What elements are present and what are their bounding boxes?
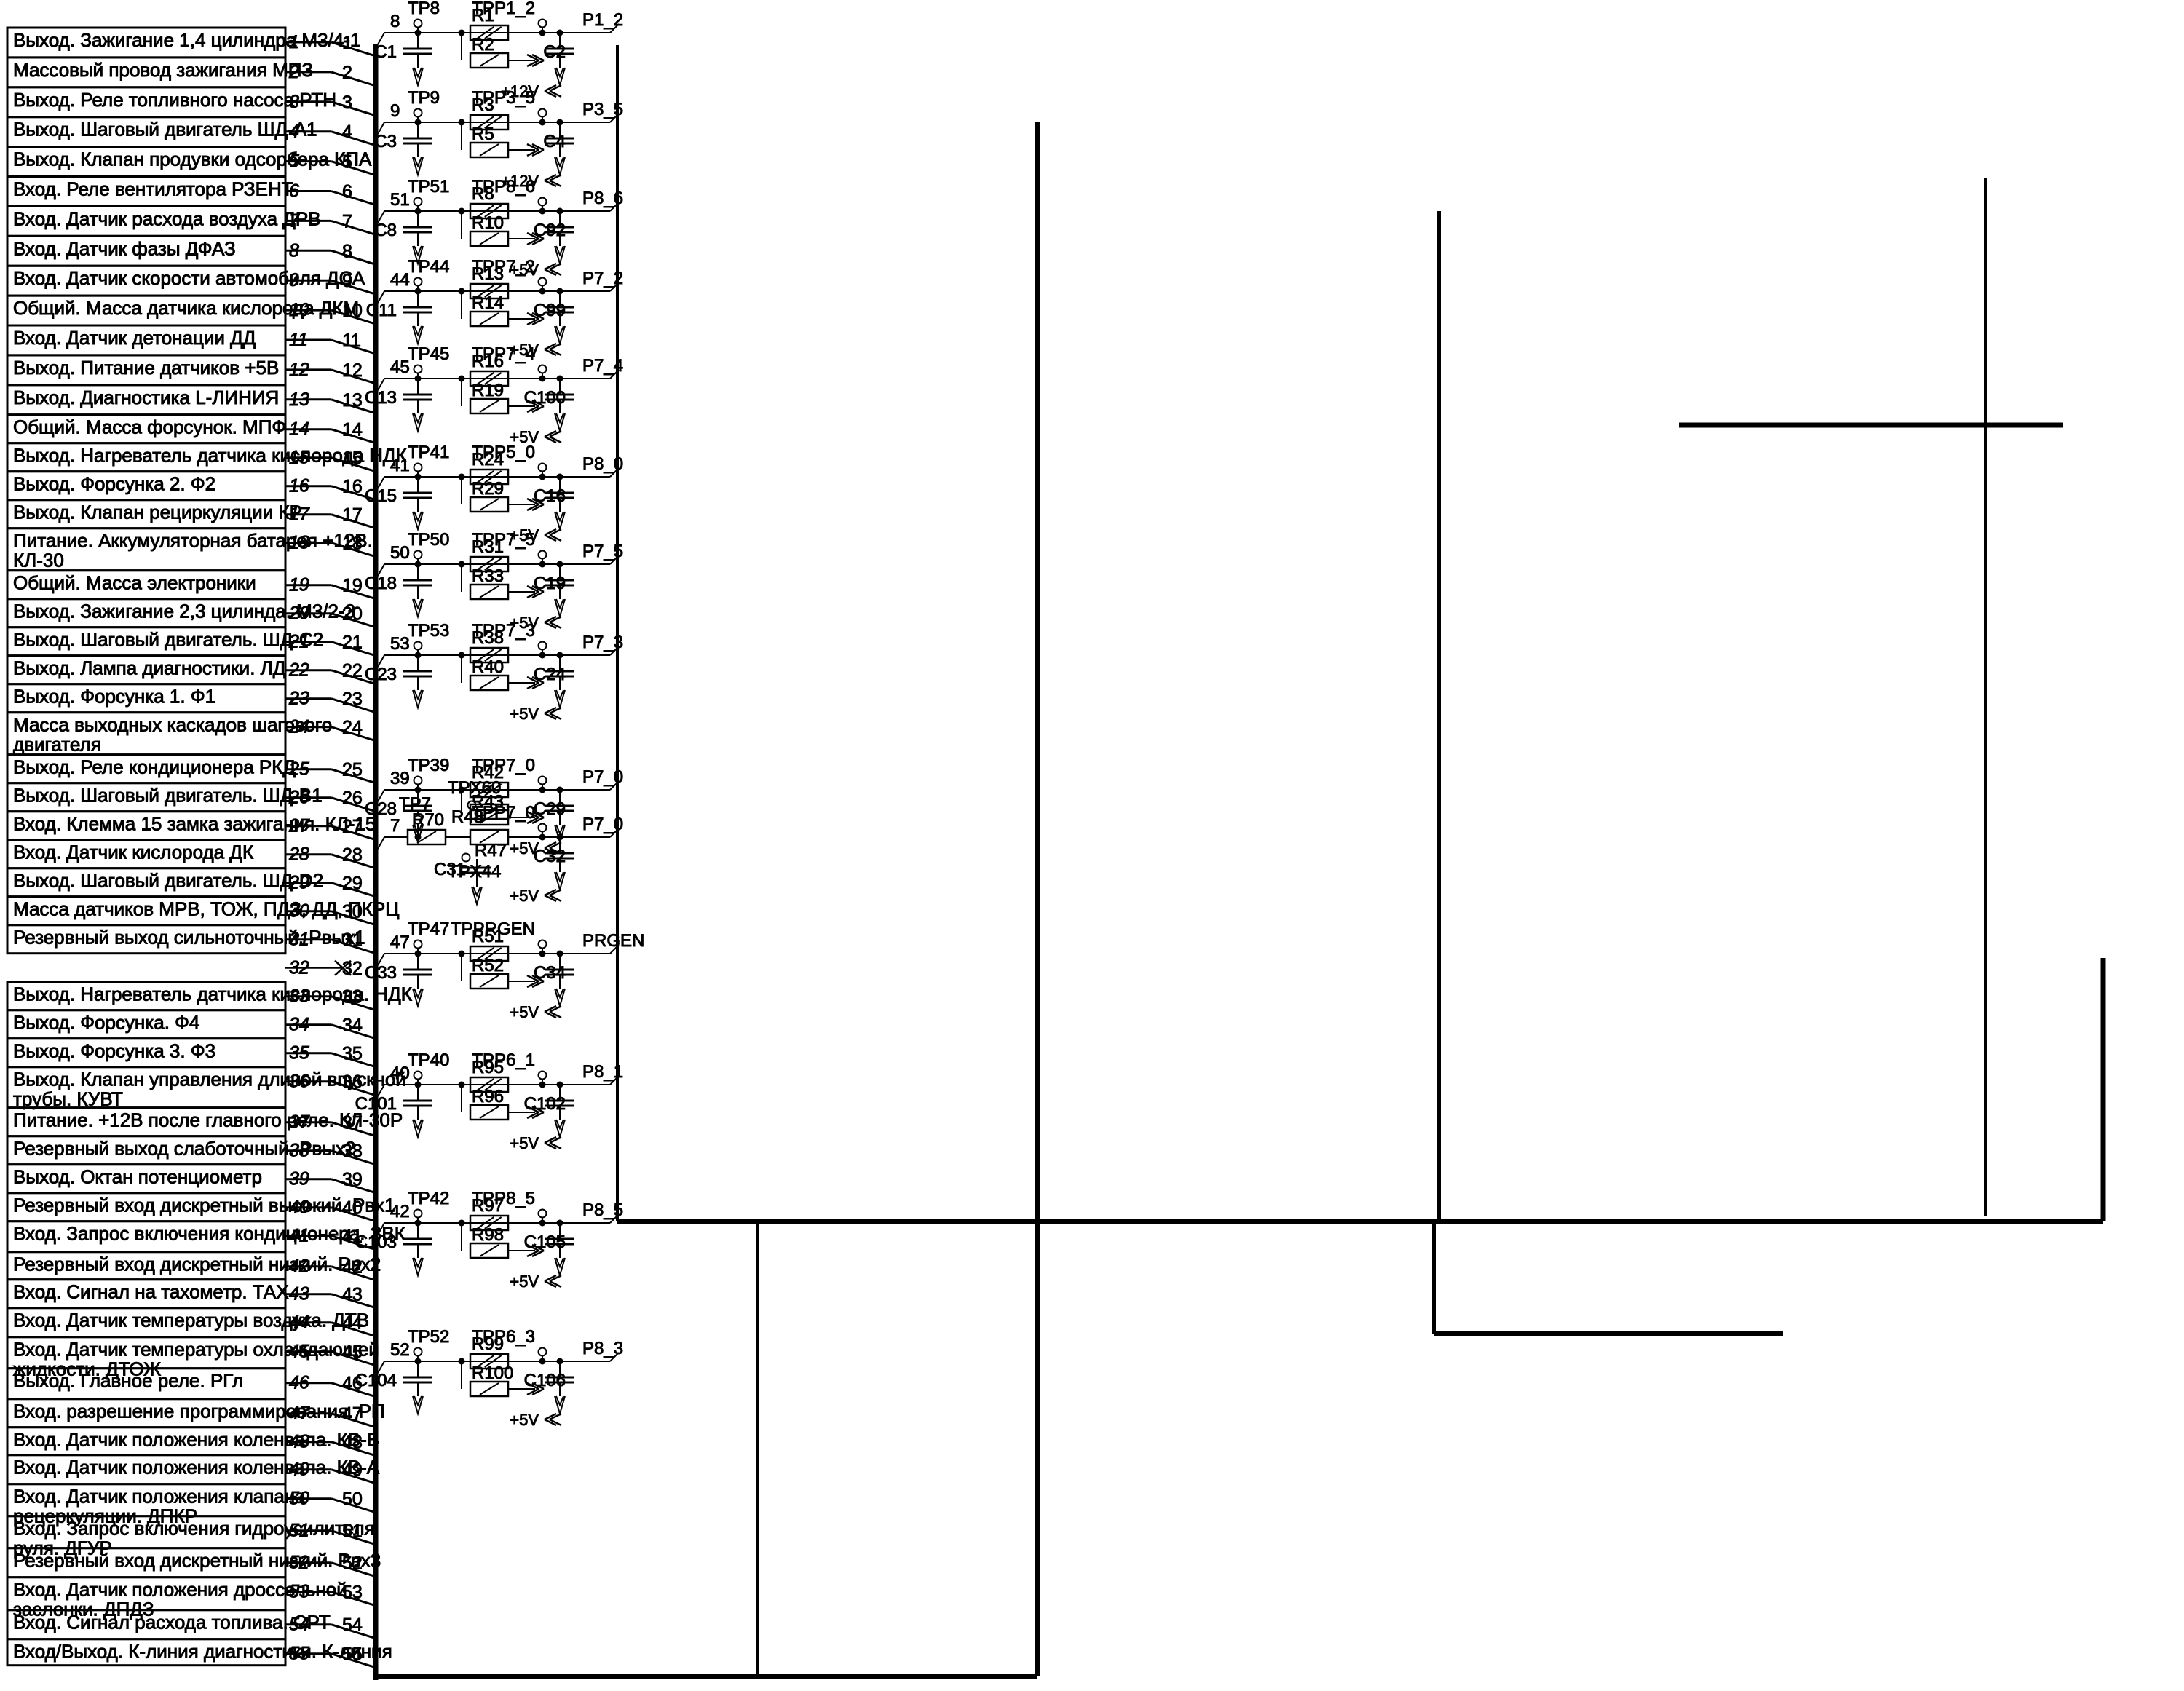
svg-text:32: 32 [342, 959, 363, 979]
svg-text:TP45: TP45 [408, 344, 449, 364]
svg-text:R5: R5 [472, 124, 494, 144]
svg-text:51: 51 [390, 190, 410, 210]
svg-text:C24: C24 [534, 665, 566, 684]
svg-text:Вход. Датчик детонации ДД: Вход. Датчик детонации ДД [13, 327, 256, 349]
svg-text:Выход. Диагностика L-ЛИНИЯ: Выход. Диагностика L-ЛИНИЯ [13, 387, 279, 408]
svg-text:Вход. Датчик температуры возду: Вход. Датчик температуры воздуха. ДТВ [13, 1310, 369, 1331]
svg-text:TP41: TP41 [408, 443, 449, 462]
svg-text:Массовый провод зажигания МПЗ: Массовый провод зажигания МПЗ [13, 59, 313, 81]
svg-text:R96: R96 [472, 1087, 504, 1106]
svg-text:КЛ-30: КЛ-30 [13, 550, 64, 571]
svg-text:C33: C33 [365, 963, 397, 983]
svg-text:R52: R52 [472, 956, 504, 975]
svg-text:+5V: +5V [510, 887, 539, 905]
svg-text:Выход. Питание датчиков +5В: Выход. Питание датчиков +5В [13, 357, 279, 379]
svg-text:Выход. Форсунка 2. Ф2: Выход. Форсунка 2. Ф2 [13, 473, 215, 495]
svg-text:Выход. Главное реле. РГл: Выход. Главное реле. РГл [13, 1370, 243, 1392]
svg-text:40: 40 [390, 1064, 410, 1083]
svg-text:R33: R33 [472, 566, 504, 586]
svg-text:Выход. Клапан рециркуляции КР: Выход. Клапан рециркуляции КР [13, 502, 302, 523]
svg-text:TPP7_4: TPP7_4 [472, 344, 535, 364]
svg-text:Вход. Датчик скорости автомоби: Вход. Датчик скорости автомобиля ДСА [13, 267, 365, 289]
svg-text:R48: R48 [451, 807, 483, 827]
svg-text:TP51: TP51 [408, 177, 449, 197]
svg-text:TP47: TP47 [408, 919, 449, 939]
svg-text:C2: C2 [543, 42, 566, 62]
svg-text:R10: R10 [472, 213, 504, 233]
svg-text:P1_2: P1_2 [582, 10, 623, 30]
svg-text:C34: C34 [534, 963, 566, 983]
svg-text:TPP6_3: TPP6_3 [472, 1327, 535, 1347]
svg-text:Вход. Запрос включения гидроус: Вход. Запрос включения гидроусилителя [13, 1518, 375, 1540]
svg-text:C11: C11 [366, 301, 397, 320]
svg-text:9: 9 [390, 101, 400, 121]
svg-text:50: 50 [390, 543, 410, 563]
svg-text:Выход. Шаговый двигатель. ШД-D: Выход. Шаговый двигатель. ШД-D2 [13, 870, 323, 892]
svg-text:7: 7 [390, 816, 400, 836]
svg-text:Выход. Форсунка 1. Ф1: Выход. Форсунка 1. Ф1 [13, 686, 215, 708]
svg-text:TP40: TP40 [408, 1050, 449, 1070]
svg-text:TP44: TP44 [408, 257, 449, 277]
svg-text:P8_3: P8_3 [582, 1339, 623, 1358]
svg-text:Выход. Шаговый двигатель ШД-А1: Выход. Шаговый двигатель ШД-А1 [13, 119, 317, 140]
svg-text:44: 44 [390, 270, 410, 290]
svg-text:Выход. Октан потенциометр: Выход. Октан потенциометр [13, 1166, 262, 1188]
svg-text:R100: R100 [472, 1363, 513, 1383]
svg-text:C29: C29 [534, 799, 566, 819]
svg-text:41: 41 [390, 456, 410, 475]
svg-text:Масса датчиков МРВ, ТОЖ, ПДЗ,: Масса датчиков МРВ, ТОЖ, ПДЗ, ДД, ПКРЦ [13, 898, 399, 920]
svg-text:Вход. Датчик положения коленва: Вход. Датчик положения коленвала. КВ-А [13, 1457, 380, 1478]
svg-text:Выход. Шаговый двигатель. ШД-В: Выход. Шаговый двигатель. ШД-В1 [13, 785, 323, 807]
svg-text:Выход. Зажигание 1,4 цилиндра: Выход. Зажигание 1,4 цилиндра М3/4-1 [13, 29, 360, 51]
svg-text:TPX44: TPX44 [448, 862, 501, 882]
svg-text:C16: C16 [534, 486, 566, 506]
svg-text:TPP7_3: TPP7_3 [472, 621, 535, 641]
svg-text:Резервный выход сильноточный.: Резервный выход сильноточный. Рвых1 [13, 927, 365, 949]
svg-text:Масса выходных каскадов шагово: Масса выходных каскадов шагового [13, 714, 332, 736]
svg-text:Вход. Сигнал расхода топлива.: Вход. Сигнал расхода топлива. СРТ [13, 1612, 331, 1633]
svg-text:R2: R2 [472, 35, 494, 55]
svg-text:C92: C92 [534, 221, 566, 240]
svg-text:Выход. Шаговый двигатель. ШД-С: Выход. Шаговый двигатель. ШД-С2 [13, 629, 323, 651]
svg-text:TPP8_5: TPP8_5 [472, 1189, 535, 1208]
svg-text:TPPRGEN: TPPRGEN [451, 919, 535, 939]
svg-text:C8: C8 [374, 221, 397, 240]
svg-text:+5V: +5V [510, 1134, 539, 1152]
svg-text:Выход. Реле кондиционера РКД: Выход. Реле кондиционера РКД [13, 756, 296, 778]
svg-text:9: 9 [342, 271, 352, 291]
svg-text:Вход. Реле вентилятора РЗЕНТ: Вход. Реле вентилятора РЗЕНТ [13, 178, 293, 200]
svg-text:39: 39 [390, 769, 410, 788]
svg-text:+5V: +5V [510, 1411, 539, 1429]
svg-text:TP53: TP53 [408, 621, 449, 641]
svg-text:TP52: TP52 [408, 1327, 449, 1347]
svg-text:R40: R40 [472, 657, 504, 677]
svg-text:53: 53 [390, 634, 410, 654]
svg-text:3: 3 [342, 92, 352, 113]
svg-text:двигателя: двигателя [13, 734, 101, 756]
svg-text:C3: C3 [374, 132, 397, 151]
svg-text:TP39: TP39 [408, 756, 449, 775]
svg-text:Вход. Датчик расхода воздуха Д: Вход. Датчик расхода воздуха ДРВ [13, 207, 321, 229]
svg-text:Резервный вход дискретный низк: Резервный вход дискретный низкий. Рвх2 [13, 1254, 381, 1275]
svg-text:Резервный вход дискретный высо: Резервный вход дискретный высокий. Рвх1 [13, 1195, 395, 1216]
svg-text:Вход. Датчик температуры охлаж: Вход. Датчик температуры охлаждающей [13, 1339, 379, 1361]
svg-text:Вход. Датчик фазы ДФАЗ: Вход. Датчик фазы ДФАЗ [13, 237, 236, 259]
svg-text:45: 45 [390, 357, 410, 377]
svg-text:47: 47 [390, 932, 410, 952]
svg-text:Резервный вход дискретный низк: Резервный вход дискретный низкий. Рвх3 [13, 1550, 381, 1572]
svg-text:R98: R98 [472, 1225, 504, 1245]
svg-text:R29: R29 [472, 479, 504, 499]
svg-text:+5V: +5V [510, 1003, 539, 1021]
svg-text:C1: C1 [374, 42, 397, 62]
svg-text:C13: C13 [365, 388, 397, 408]
svg-text:2: 2 [342, 63, 352, 83]
svg-text:1: 1 [342, 33, 352, 53]
svg-text:Вход. Клемма 15 замка зажигани: Вход. Клемма 15 замка зажигания. КЛ-15 [13, 813, 376, 835]
svg-text:TPP7_0: TPP7_0 [472, 756, 535, 775]
svg-text:TPP6_1: TPP6_1 [472, 1050, 535, 1070]
svg-text:TPP1_2: TPP1_2 [472, 0, 535, 18]
svg-text:+5V: +5V [510, 1272, 539, 1291]
svg-text:TP42: TP42 [408, 1189, 449, 1208]
svg-text:TP50: TP50 [408, 530, 449, 550]
svg-text:4: 4 [342, 122, 352, 143]
svg-text:Вход. разрешение программирова: Вход. разрешение программирования. РП [13, 1401, 385, 1422]
svg-text:Выход. Лампа диагностики. ЛД: Выход. Лампа диагностики. ЛД [13, 657, 286, 679]
svg-text:Вход. Сигнал на тахометр. ТАХ: Вход. Сигнал на тахометр. ТАХ [13, 1281, 289, 1303]
svg-text:6: 6 [342, 182, 352, 202]
svg-text:8: 8 [390, 12, 400, 31]
svg-text:Вход/Выход. К-линия диагностик: Вход/Выход. К-линия диагностики. К-линия [13, 1641, 392, 1663]
svg-text:C4: C4 [543, 132, 566, 151]
svg-text:R19: R19 [472, 381, 504, 400]
svg-text:8: 8 [342, 241, 352, 261]
svg-text:TPX60: TPX60 [448, 778, 501, 798]
svg-text:Выход. Клапан продувки одсорбе: Выход. Клапан продувки одсорбера КПА [13, 148, 372, 170]
svg-text:R70: R70 [412, 810, 444, 830]
svg-text:5: 5 [342, 152, 352, 173]
svg-text:C101: C101 [355, 1094, 397, 1114]
svg-text:C103: C103 [355, 1232, 397, 1252]
svg-text:TP9: TP9 [408, 88, 440, 108]
svg-text:C99: C99 [534, 301, 566, 320]
svg-text:C23: C23 [365, 665, 397, 684]
svg-text:Общий. Масса форсунок. МПФ: Общий. Масса форсунок. МПФ [13, 416, 286, 438]
svg-text:C104: C104 [355, 1371, 397, 1390]
svg-text:Вход. Датчик положения коленва: Вход. Датчик положения коленвала. КВ-В [13, 1429, 379, 1451]
svg-text:C32: C32 [534, 847, 566, 866]
svg-text:C15: C15 [365, 486, 397, 506]
svg-text:Общий. Масса электроники: Общий. Масса электроники [13, 572, 256, 594]
svg-text:TPP7_2: TPP7_2 [472, 257, 535, 277]
svg-text:R47: R47 [475, 841, 507, 860]
svg-text:Питание. Аккумуляторная батаре: Питание. Аккумуляторная батарея +12В. [13, 530, 373, 552]
svg-text:TPP7_5: TPP7_5 [472, 530, 535, 550]
svg-text:Выход. Реле топливного насоса: Выход. Реле топливного насоса РТН [13, 89, 336, 111]
svg-text:42: 42 [390, 1202, 410, 1221]
svg-text:C19: C19 [534, 574, 566, 593]
svg-text:+5V: +5V [510, 705, 539, 723]
svg-text:Выход. Форсунка 3. Ф3: Выход. Форсунка 3. Ф3 [13, 1040, 215, 1062]
svg-text:TPP8_6: TPP8_6 [472, 177, 535, 197]
svg-text:Вход. Датчик положения клапана: Вход. Датчик положения клапана [13, 1486, 306, 1508]
svg-text:R14: R14 [472, 293, 504, 313]
svg-text:7: 7 [342, 211, 352, 231]
svg-text:Вход. Датчик кислорода ДК: Вход. Датчик кислорода ДК [13, 841, 253, 863]
svg-text:Выход. Форсунка. Ф4: Выход. Форсунка. Ф4 [13, 1012, 199, 1034]
svg-text:PRGEN: PRGEN [582, 931, 644, 951]
svg-text:TPP3_5: TPP3_5 [472, 88, 535, 108]
svg-text:TPP5_0: TPP5_0 [472, 443, 535, 462]
svg-text:TP8: TP8 [408, 0, 440, 18]
svg-text:52: 52 [390, 1340, 410, 1360]
svg-text:C18: C18 [365, 574, 397, 593]
